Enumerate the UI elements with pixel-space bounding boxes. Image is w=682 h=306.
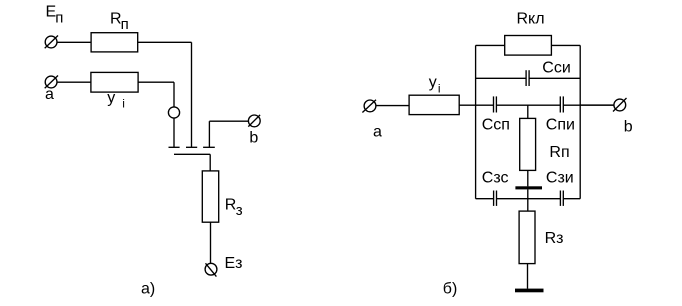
svg-text:b: b: [249, 130, 258, 147]
svg-text:Сси: Сси: [542, 59, 571, 76]
svg-text:Сзи: Сзи: [546, 169, 574, 186]
svg-text:п: п: [121, 16, 129, 33]
svg-text:Спи: Спи: [546, 116, 575, 133]
svg-text:i: i: [122, 97, 125, 111]
svg-text:у: у: [429, 74, 437, 91]
svg-text:Ссп: Ссп: [482, 116, 510, 133]
svg-text:b: b: [624, 118, 633, 135]
svg-text:Rп: Rп: [549, 144, 569, 161]
svg-text:п: п: [55, 10, 63, 27]
svg-text:а): а): [141, 281, 155, 298]
svg-text:б): б): [443, 281, 458, 298]
svg-text:Сзс: Сзс: [482, 169, 509, 186]
svg-text:Ез: Ез: [225, 255, 243, 272]
svg-text:R: R: [225, 197, 237, 214]
svg-text:Rз: Rз: [545, 230, 564, 247]
svg-text:Rкл: Rкл: [517, 10, 545, 27]
svg-text:у: у: [107, 90, 115, 107]
svg-text:i: i: [438, 81, 441, 95]
svg-text:а: а: [45, 86, 54, 103]
svg-text:а: а: [373, 124, 382, 141]
svg-text:з: з: [236, 202, 243, 219]
